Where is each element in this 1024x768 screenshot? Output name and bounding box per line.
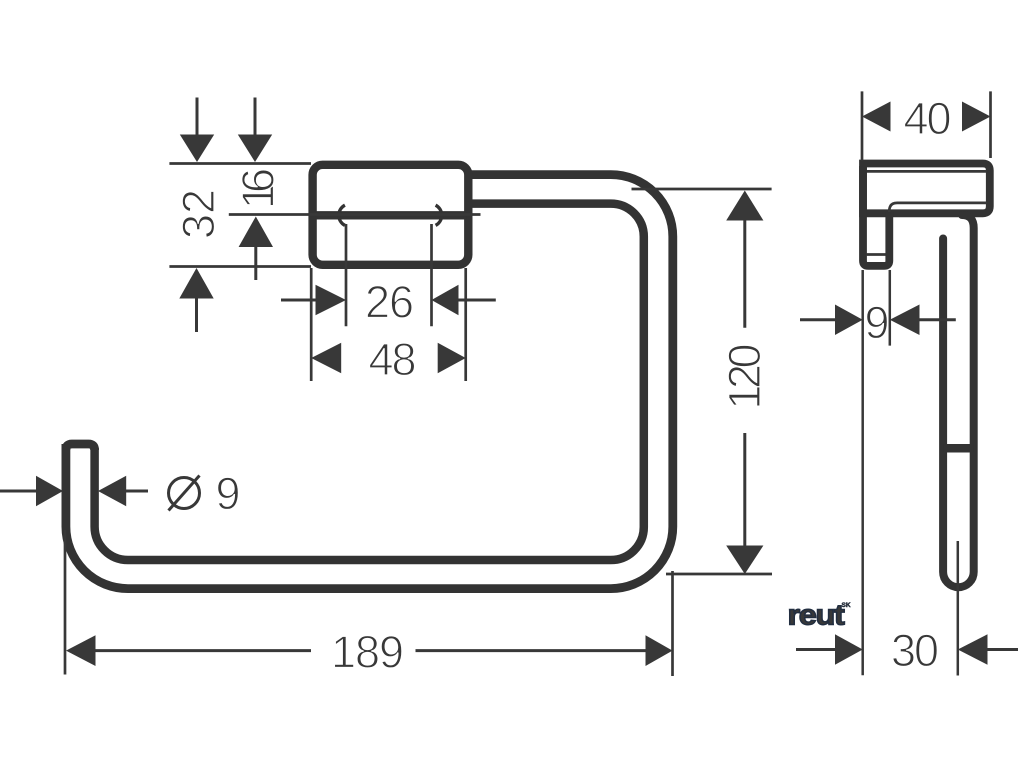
extension line 189 right (x=672.5) — [671, 571, 674, 676]
towel ring outer contour (stub left edge, bottom, right side, top run) — [66, 175, 673, 589]
dimension 189 left arrow — [66, 635, 311, 666]
svg-text:9: 9 — [215, 468, 240, 519]
svg-text:120: 120 — [719, 344, 770, 410]
dimension 30 left arrow — [796, 634, 863, 665]
dimension 9 right arrow — [890, 305, 956, 336]
bracket slab outline (top horizontal arm) — [863, 164, 990, 214]
dim ref line top (32/16 origin, y=163.5) — [169, 162, 311, 165]
dimension 189 right arrow — [416, 635, 673, 666]
svg-text:30: 30 — [891, 625, 939, 676]
svg-text:16: 16 — [233, 168, 284, 209]
wall plate side profile (vertical with foot) — [863, 166, 889, 266]
bracket arm top thin line with corner — [889, 203, 986, 212]
dimension 40 left arrow (points left) — [862, 102, 891, 132]
extension line 40 right (x=990.5) — [989, 91, 992, 158]
wall plate inner thick bar line — [314, 211, 467, 219]
dimension 9 left arrow — [800, 305, 863, 336]
extension line 40 left (x=862) — [861, 91, 864, 160]
bar joint line — [943, 444, 974, 453]
dimension 48 left arrow (points left) — [311, 343, 341, 373]
towel ring stub top cap — [66, 444, 95, 450]
svg-text:9: 9 — [864, 297, 889, 348]
svg-text:reut: reut — [788, 600, 846, 632]
dimension 120 down arrow — [726, 433, 763, 574]
hanging bar (side view of ring tube) with U bottom — [943, 215, 974, 587]
right tube arc mark ) — [436, 205, 442, 225]
extension line 9/30 left long (x=862.7) — [861, 270, 864, 675]
dimension diameter 9 left arrow — [0, 476, 63, 506]
extension line 48 left (x=311.2) — [310, 268, 313, 381]
bracket slab inner top thin line — [865, 170, 987, 173]
dimension 40 right arrow (points right) — [962, 102, 991, 132]
bar centerline thin — [957, 541, 960, 676]
up arrow for 32 (x=196.5) — [179, 268, 213, 332]
extension line 189 left (x=65) — [64, 530, 67, 675]
dim ref line middle (16, y=214.5) — [229, 213, 481, 216]
extension line 26 right (x=431.5) — [430, 224, 433, 326]
dimension 26 left arrow — [281, 285, 346, 315]
towel ring inner contour — [95, 204, 644, 560]
wall plate foot thin step line — [866, 253, 885, 256]
svg-text:189: 189 — [331, 627, 404, 678]
dimension 26 right arrow — [432, 285, 496, 315]
extension line 9 right (x=889.8) — [889, 270, 892, 346]
wall plate (front view rounded rect) — [313, 165, 469, 265]
extension line 120 bottom (y=574) — [666, 573, 772, 576]
dimension 48 right arrow (points right) — [438, 343, 466, 373]
svg-text:40: 40 — [904, 93, 952, 144]
extension line 120 top (y=189) — [632, 188, 772, 191]
extension line 26 left (x=346) — [345, 224, 348, 326]
down arrow for 16 (x=255) — [238, 98, 272, 163]
up arrow for 16 (x=255.8) — [239, 217, 273, 281]
svg-text:48: 48 — [369, 334, 417, 385]
dimension 120 up arrow — [726, 191, 763, 328]
dimension 30 right arrow — [958, 634, 1018, 665]
extension line 48 right (x=465.7) — [464, 268, 467, 381]
dim ref line bottom (32, y=266.5) — [169, 265, 311, 268]
diameter symbol — [169, 476, 200, 511]
svg-text:26: 26 — [365, 277, 414, 328]
dimension diameter 9 right arrow — [98, 476, 148, 506]
svg-text:32: 32 — [173, 189, 224, 239]
left tube arc mark ( — [339, 205, 345, 225]
reut watermark — [788, 600, 851, 632]
down arrow for 32 (x=197) — [180, 98, 214, 163]
svg-text:SK: SK — [842, 602, 851, 609]
